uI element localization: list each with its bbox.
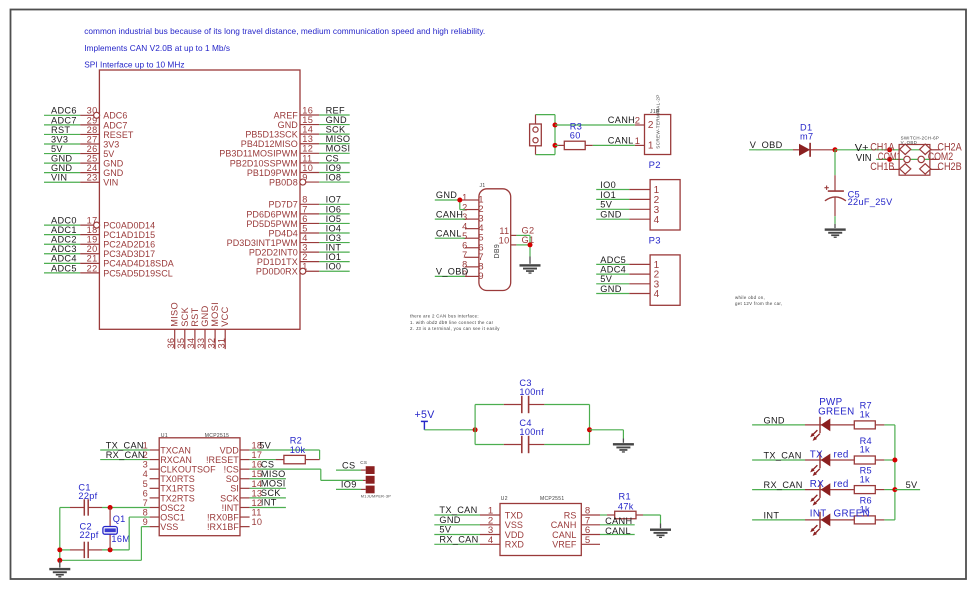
svg-text:22: 22 bbox=[87, 263, 98, 273]
svg-text:TX_CAN: TX_CAN bbox=[439, 505, 477, 515]
svg-text:RST: RST bbox=[190, 307, 200, 326]
svg-text:PD5D5PWM: PD5D5PWM bbox=[246, 219, 297, 229]
svg-text:common industrial bus because: common industrial bus because of its lon… bbox=[84, 26, 485, 36]
svg-text:MCP2551: MCP2551 bbox=[540, 496, 564, 502]
svg-text:31: 31 bbox=[216, 338, 226, 349]
svg-text:5V: 5V bbox=[103, 149, 114, 159]
svg-text:100nf: 100nf bbox=[519, 427, 544, 437]
svg-text:60: 60 bbox=[570, 131, 581, 141]
svg-text:8: 8 bbox=[302, 195, 307, 205]
svg-text:4: 4 bbox=[302, 233, 307, 243]
svg-text:4: 4 bbox=[462, 221, 467, 231]
svg-text:V_OBD: V_OBD bbox=[750, 140, 783, 150]
svg-text:GND: GND bbox=[436, 190, 457, 200]
svg-text:22uF_25V: 22uF_25V bbox=[848, 197, 894, 207]
svg-text:U1: U1 bbox=[161, 433, 168, 439]
svg-text:IO1: IO1 bbox=[600, 190, 616, 200]
svg-text:IO0: IO0 bbox=[326, 262, 342, 272]
svg-text:CS: CS bbox=[326, 153, 339, 163]
svg-text:IO4: IO4 bbox=[326, 223, 342, 233]
svg-text:IO7: IO7 bbox=[326, 195, 342, 205]
svg-text:10: 10 bbox=[302, 163, 313, 173]
svg-text:11: 11 bbox=[252, 508, 262, 518]
svg-text:VIN: VIN bbox=[103, 178, 118, 188]
svg-text:RX_CAN: RX_CAN bbox=[439, 535, 478, 545]
svg-text:U2: U2 bbox=[501, 496, 508, 502]
svg-text:PD3D3INT1PWM: PD3D3INT1PWM bbox=[227, 238, 298, 248]
svg-text:TXCAN: TXCAN bbox=[160, 445, 191, 455]
svg-text:INT: INT bbox=[764, 510, 780, 520]
svg-text:REF: REF bbox=[326, 105, 345, 115]
svg-text:IO9: IO9 bbox=[326, 163, 342, 173]
svg-text:7: 7 bbox=[462, 250, 467, 260]
svg-text:5V: 5V bbox=[600, 274, 612, 284]
svg-text:21: 21 bbox=[87, 254, 98, 264]
svg-text:R1: R1 bbox=[619, 492, 631, 502]
svg-text:G2: G2 bbox=[522, 226, 535, 236]
svg-text:ADC4: ADC4 bbox=[600, 265, 626, 275]
svg-text:ADC1: ADC1 bbox=[51, 225, 77, 235]
svg-text:there are 2 CAN bus interface:: there are 2 CAN bus interface: bbox=[410, 314, 479, 319]
svg-text:CANL: CANL bbox=[608, 136, 634, 146]
svg-text:3: 3 bbox=[143, 460, 148, 470]
svg-text:2: 2 bbox=[635, 116, 641, 127]
svg-text:SCREW-TERMINAL-2P: SCREW-TERMINAL-2P bbox=[656, 94, 661, 148]
svg-text:RESET: RESET bbox=[103, 130, 134, 140]
svg-text:CANL: CANL bbox=[605, 526, 631, 536]
svg-text:36: 36 bbox=[166, 338, 176, 349]
svg-text:ADC5: ADC5 bbox=[51, 263, 77, 273]
svg-text:PD7D7: PD7D7 bbox=[269, 200, 298, 210]
svg-text:MISO: MISO bbox=[326, 134, 351, 144]
svg-text:10k: 10k bbox=[290, 445, 306, 455]
svg-text:Implements CAN V2.0B at up to: Implements CAN V2.0B at up to 1 Mb/s bbox=[84, 43, 230, 53]
svg-text:!CS: !CS bbox=[224, 465, 239, 475]
svg-text:OSC2: OSC2 bbox=[160, 503, 185, 513]
svg-text:INT: INT bbox=[810, 509, 827, 520]
svg-text:SPI Interface up to 10 MHz: SPI Interface up to 10 MHz bbox=[84, 59, 184, 69]
svg-text:PC3AD3D17: PC3AD3D17 bbox=[103, 249, 155, 259]
svg-text:22pf: 22pf bbox=[80, 530, 99, 540]
svg-text:TX2RTS: TX2RTS bbox=[160, 493, 195, 503]
svg-text:P3: P3 bbox=[649, 235, 661, 246]
svg-text:1k: 1k bbox=[860, 410, 870, 420]
svg-text:PD1D1TX: PD1D1TX bbox=[257, 257, 298, 267]
svg-text:ADC2: ADC2 bbox=[51, 235, 77, 245]
svg-text:Q1: Q1 bbox=[113, 514, 126, 524]
svg-text:6: 6 bbox=[462, 240, 467, 250]
svg-text:11: 11 bbox=[499, 226, 509, 236]
svg-text:5V: 5V bbox=[51, 144, 63, 154]
svg-text:V_OBD: V_OBD bbox=[436, 267, 469, 277]
svg-text:get 12V from the car,: get 12V from the car, bbox=[735, 301, 782, 306]
svg-text:PB4D12MISO: PB4D12MISO bbox=[241, 139, 298, 149]
svg-text:19: 19 bbox=[87, 235, 98, 245]
svg-text:PC2AD2D16: PC2AD2D16 bbox=[103, 240, 155, 250]
svg-text:PD2D2INT0: PD2D2INT0 bbox=[249, 248, 298, 258]
svg-text:5V: 5V bbox=[906, 480, 918, 490]
svg-text:CANL: CANL bbox=[552, 530, 576, 540]
svg-text:32: 32 bbox=[206, 338, 216, 349]
svg-text:1. with obd2 db9 line connect: 1. with obd2 db9 line connect the car bbox=[410, 320, 494, 325]
svg-text:7: 7 bbox=[302, 204, 307, 214]
svg-text:RX_CAN: RX_CAN bbox=[764, 480, 803, 490]
svg-text:IO6: IO6 bbox=[326, 204, 342, 214]
svg-text:RX_CAN: RX_CAN bbox=[106, 450, 145, 460]
svg-text:5V: 5V bbox=[600, 200, 612, 210]
svg-text:PB2D10SSPWM: PB2D10SSPWM bbox=[230, 158, 298, 168]
svg-text:28: 28 bbox=[87, 125, 98, 135]
svg-text:ADC6: ADC6 bbox=[51, 106, 77, 116]
svg-text:1: 1 bbox=[648, 141, 654, 152]
svg-text:CS: CS bbox=[261, 459, 274, 469]
svg-text:8: 8 bbox=[143, 508, 148, 518]
svg-text:1k: 1k bbox=[860, 474, 870, 484]
svg-text:SO: SO bbox=[226, 474, 239, 484]
svg-text:CH1B: CH1B bbox=[870, 161, 894, 173]
svg-text:1: 1 bbox=[462, 193, 467, 203]
svg-text:ADC7: ADC7 bbox=[51, 115, 77, 125]
svg-text:PD4D4: PD4D4 bbox=[269, 228, 298, 238]
svg-text:GND: GND bbox=[439, 515, 460, 525]
svg-text:GND: GND bbox=[103, 159, 124, 169]
svg-text:J1: J1 bbox=[480, 183, 486, 189]
svg-text:while obd on,: while obd on, bbox=[735, 295, 765, 300]
svg-text:SCK: SCK bbox=[326, 125, 346, 135]
svg-text:RST: RST bbox=[51, 125, 70, 135]
svg-text:GND: GND bbox=[200, 305, 210, 326]
svg-text:RX: RX bbox=[810, 479, 824, 490]
svg-text:AREF: AREF bbox=[274, 110, 299, 120]
svg-text:14: 14 bbox=[302, 125, 313, 135]
svg-text:M1JUMPER-3P: M1JUMPER-3P bbox=[361, 494, 391, 498]
svg-text:MOSI: MOSI bbox=[326, 144, 351, 154]
svg-text:IO9: IO9 bbox=[341, 480, 357, 490]
svg-text:RXCAN: RXCAN bbox=[160, 455, 192, 465]
svg-text:20: 20 bbox=[87, 244, 98, 254]
svg-text:100nf: 100nf bbox=[519, 387, 544, 397]
svg-text:!RX1BF: !RX1BF bbox=[207, 522, 239, 532]
svg-text:TXD: TXD bbox=[505, 510, 524, 520]
svg-text:ADC5: ADC5 bbox=[600, 255, 626, 265]
svg-text:V_OBD: V_OBD bbox=[901, 140, 918, 145]
svg-text:CLKOUTSOF: CLKOUTSOF bbox=[160, 465, 216, 475]
svg-text:GND: GND bbox=[600, 210, 621, 220]
svg-text:CANH: CANH bbox=[436, 209, 463, 219]
svg-text:2: 2 bbox=[302, 252, 307, 262]
svg-text:10: 10 bbox=[499, 235, 510, 245]
svg-text:SI: SI bbox=[230, 484, 239, 494]
svg-text:4: 4 bbox=[654, 215, 660, 226]
svg-text:IO0: IO0 bbox=[600, 180, 616, 190]
svg-text:GND: GND bbox=[326, 115, 347, 125]
svg-text:4: 4 bbox=[143, 469, 148, 479]
svg-text:IO8: IO8 bbox=[326, 172, 342, 182]
svg-text:TX0RTS: TX0RTS bbox=[160, 474, 195, 484]
svg-text:26: 26 bbox=[87, 144, 98, 154]
svg-text:ADC3: ADC3 bbox=[51, 244, 77, 254]
svg-text:PB5D13SCK: PB5D13SCK bbox=[245, 130, 297, 140]
svg-text:VCC: VCC bbox=[220, 306, 230, 326]
svg-text:ADC6: ADC6 bbox=[103, 111, 127, 121]
svg-text:OSC1: OSC1 bbox=[160, 512, 185, 522]
svg-text:PB0D8: PB0D8 bbox=[269, 177, 298, 187]
svg-text:MCP2515: MCP2515 bbox=[205, 433, 229, 439]
svg-text:PC4AD4D18SDA: PC4AD4D18SDA bbox=[103, 259, 174, 269]
svg-text:5: 5 bbox=[462, 231, 467, 241]
svg-text:9: 9 bbox=[143, 517, 148, 527]
svg-text:IO3: IO3 bbox=[326, 233, 342, 243]
svg-text:22pf: 22pf bbox=[78, 491, 97, 501]
svg-text:23: 23 bbox=[87, 173, 98, 183]
svg-text:PC1AD1D15: PC1AD1D15 bbox=[103, 230, 155, 240]
svg-text:TX1RTS: TX1RTS bbox=[160, 484, 195, 494]
svg-text:27: 27 bbox=[87, 134, 98, 144]
svg-text:47k: 47k bbox=[618, 501, 634, 511]
svg-text:IO5: IO5 bbox=[326, 214, 342, 224]
svg-text:GND: GND bbox=[51, 154, 72, 164]
svg-text:VSS: VSS bbox=[505, 520, 523, 530]
svg-text:CS: CS bbox=[360, 460, 367, 465]
svg-text:!INT: !INT bbox=[222, 503, 240, 513]
svg-text:3: 3 bbox=[302, 243, 307, 253]
svg-text:GND: GND bbox=[278, 120, 299, 130]
svg-text:SCK: SCK bbox=[261, 488, 281, 498]
svg-text:SCK: SCK bbox=[220, 493, 239, 503]
svg-text:CANH: CANH bbox=[551, 520, 577, 530]
svg-text:!RX0BF: !RX0BF bbox=[207, 512, 239, 522]
svg-text:1k: 1k bbox=[860, 445, 870, 455]
svg-text:PC5AD5D19SCL: PC5AD5D19SCL bbox=[103, 268, 173, 278]
svg-text:4: 4 bbox=[654, 289, 660, 300]
svg-text:3V3: 3V3 bbox=[103, 139, 119, 149]
svg-text:MISO: MISO bbox=[261, 469, 286, 479]
svg-text:5: 5 bbox=[143, 479, 148, 489]
svg-text:11: 11 bbox=[302, 153, 312, 163]
svg-text:5V: 5V bbox=[439, 525, 451, 535]
svg-text:6: 6 bbox=[143, 488, 148, 498]
svg-text:PD6D6PWM: PD6D6PWM bbox=[246, 209, 297, 219]
svg-text:MISO: MISO bbox=[170, 302, 180, 327]
svg-text:CS: CS bbox=[342, 460, 355, 470]
svg-text:VIN: VIN bbox=[51, 173, 67, 183]
svg-text:16M: 16M bbox=[111, 534, 130, 544]
svg-text:!RESET: !RESET bbox=[206, 455, 239, 465]
svg-text:1: 1 bbox=[635, 136, 641, 147]
svg-text:SCK: SCK bbox=[180, 306, 190, 326]
svg-text:2. J3 is a terminal, you can s: 2. J3 is a terminal, you can see it easi… bbox=[410, 326, 500, 331]
svg-text:CH2B: CH2B bbox=[937, 161, 961, 173]
svg-text:red: red bbox=[834, 479, 849, 490]
svg-text:TX_CAN: TX_CAN bbox=[106, 440, 144, 450]
svg-text:ADC0: ADC0 bbox=[51, 216, 77, 226]
svg-text:ADC4: ADC4 bbox=[51, 254, 77, 264]
svg-text:13: 13 bbox=[302, 134, 313, 144]
svg-text:25: 25 bbox=[87, 154, 98, 164]
svg-text:red: red bbox=[834, 449, 849, 460]
svg-text:m7: m7 bbox=[800, 132, 813, 142]
svg-text:IO1: IO1 bbox=[326, 252, 342, 262]
svg-text:TX: TX bbox=[810, 449, 823, 460]
svg-text:PC0AD0D14: PC0AD0D14 bbox=[103, 221, 155, 231]
svg-text:RXD: RXD bbox=[505, 540, 525, 550]
svg-text:GND: GND bbox=[764, 415, 785, 425]
svg-text:4: 4 bbox=[488, 535, 494, 546]
svg-text:5: 5 bbox=[302, 223, 307, 233]
svg-text:7: 7 bbox=[143, 498, 148, 508]
svg-text:GND: GND bbox=[103, 168, 124, 178]
svg-text:VREF: VREF bbox=[552, 540, 577, 550]
svg-text:CANL: CANL bbox=[436, 228, 462, 238]
svg-text:+5V: +5V bbox=[415, 409, 436, 421]
svg-text:15: 15 bbox=[302, 115, 313, 125]
svg-text:34: 34 bbox=[186, 338, 196, 349]
svg-text:10: 10 bbox=[252, 517, 263, 527]
svg-text:RS: RS bbox=[564, 510, 577, 520]
svg-text:MOSI: MOSI bbox=[261, 479, 286, 489]
svg-text:P2: P2 bbox=[649, 160, 661, 171]
svg-text:CANH: CANH bbox=[608, 115, 635, 125]
svg-text:2: 2 bbox=[648, 120, 654, 131]
svg-text:33: 33 bbox=[196, 338, 206, 349]
svg-text:INT: INT bbox=[326, 243, 342, 253]
svg-text:VSS: VSS bbox=[160, 522, 178, 532]
svg-text:5V: 5V bbox=[259, 440, 271, 450]
svg-text:MOSI: MOSI bbox=[210, 302, 220, 327]
svg-text:35: 35 bbox=[176, 338, 186, 349]
svg-text:GND: GND bbox=[51, 163, 72, 173]
svg-text:12: 12 bbox=[302, 144, 313, 154]
svg-text:INT: INT bbox=[261, 498, 277, 508]
svg-text:24: 24 bbox=[87, 163, 98, 173]
svg-text:TX_CAN: TX_CAN bbox=[764, 450, 802, 460]
svg-text:ADC7: ADC7 bbox=[103, 120, 127, 130]
svg-text:GND: GND bbox=[600, 284, 621, 294]
svg-text:6: 6 bbox=[302, 214, 307, 224]
svg-text:16: 16 bbox=[302, 105, 313, 115]
svg-text:VDD: VDD bbox=[220, 445, 240, 455]
svg-text:CANH: CANH bbox=[605, 516, 632, 526]
svg-text:PB3D11MOSIPWM: PB3D11MOSIPWM bbox=[219, 149, 298, 159]
svg-text:1k: 1k bbox=[860, 505, 870, 515]
svg-text:PB1D9PWM: PB1D9PWM bbox=[247, 168, 298, 178]
svg-text:DB9: DB9 bbox=[494, 244, 501, 259]
svg-text:VDD: VDD bbox=[505, 530, 525, 540]
svg-text:3V3: 3V3 bbox=[51, 134, 68, 144]
svg-text:PD0D0RX: PD0D0RX bbox=[256, 267, 298, 277]
svg-text:GREEN: GREEN bbox=[818, 407, 854, 418]
